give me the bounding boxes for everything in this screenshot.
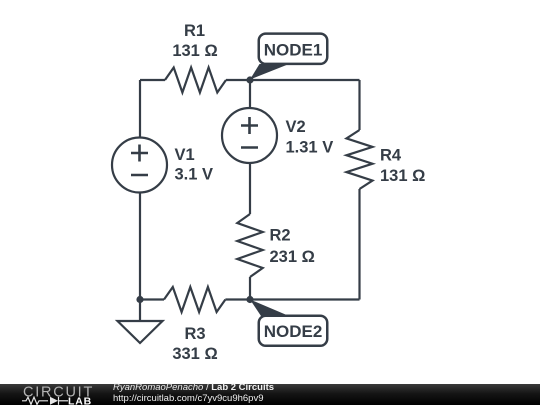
- svg-text:R1: R1: [184, 22, 205, 40]
- svg-text:3.1 V: 3.1 V: [175, 166, 214, 184]
- svg-text:1.31 V: 1.31 V: [286, 139, 334, 157]
- svg-text:231 Ω: 231 Ω: [270, 248, 315, 266]
- svg-text:LAB: LAB: [68, 396, 92, 405]
- svg-text:V2: V2: [286, 118, 306, 136]
- svg-text:R4: R4: [380, 147, 402, 165]
- svg-text:331 Ω: 331 Ω: [172, 345, 217, 363]
- svg-text:NODE1: NODE1: [264, 41, 323, 60]
- svg-text:V1: V1: [175, 146, 195, 164]
- svg-text:R2: R2: [270, 227, 291, 245]
- svg-text:R3: R3: [184, 325, 205, 343]
- svg-text:131 Ω: 131 Ω: [380, 167, 425, 185]
- svg-text:NODE2: NODE2: [264, 322, 323, 341]
- svg-text:131 Ω: 131 Ω: [172, 42, 217, 60]
